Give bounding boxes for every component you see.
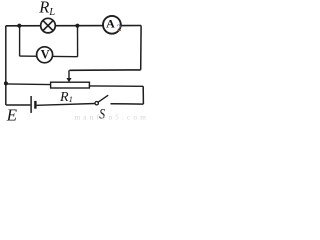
wire voltmeter riser right xyxy=(77,26,79,57)
wire voltmeter row xyxy=(20,55,78,58)
svg-text:manfen5.com: manfen5.com xyxy=(75,113,149,121)
wire slider feed xyxy=(69,69,140,71)
lamp RL (circle with X) xyxy=(41,18,56,33)
junction dot left voltmeter tap xyxy=(17,24,21,28)
battery E short plate xyxy=(34,101,36,109)
junction dot rheostat left tap xyxy=(4,81,8,85)
wire bottom battery lead right xyxy=(37,104,96,106)
svg-text:E: E xyxy=(6,106,18,123)
voltmeter V xyxy=(37,47,53,63)
wire rheostat left lead xyxy=(6,83,50,86)
svg-text:2: 2 xyxy=(117,23,122,33)
wire top bus xyxy=(6,25,141,27)
svg-text:A: A xyxy=(106,17,115,31)
wire voltmeter drop left xyxy=(19,26,21,57)
battery E long plate xyxy=(30,96,32,113)
svg-text:V: V xyxy=(41,48,50,62)
junction dot right voltmeter tap xyxy=(75,24,79,28)
wire right bus upper xyxy=(140,26,142,70)
wire rheostat right lead xyxy=(90,85,143,87)
wire left bus xyxy=(5,26,7,105)
wire right bus lower xyxy=(142,86,144,104)
switch S blade xyxy=(98,95,108,102)
rheostat slider arrow xyxy=(66,70,71,82)
rheostat R1 body xyxy=(51,82,90,88)
ammeter A xyxy=(103,16,121,34)
wire bottom right segment xyxy=(111,103,144,105)
wire bottom battery lead left xyxy=(6,104,31,106)
switch S pivot circle xyxy=(95,102,98,105)
